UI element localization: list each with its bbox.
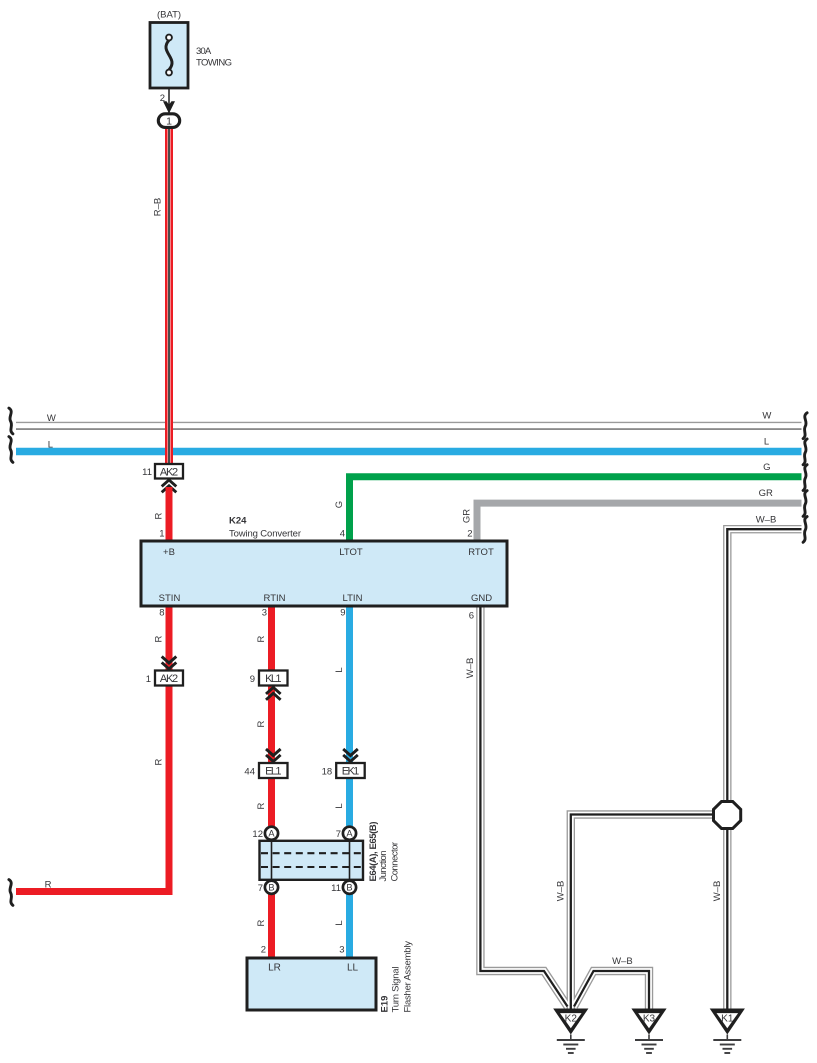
- svg-text:7: 7: [336, 829, 341, 840]
- fuse F1 30A TOWING: [150, 23, 188, 89]
- wire L from junction B to E19 pin3: [346, 895, 353, 959]
- svg-text:R: R: [154, 512, 165, 519]
- svg-text:8: 8: [159, 608, 164, 619]
- svg-text:K24: K24: [229, 516, 247, 527]
- wire L bus horizontal: [16, 448, 802, 456]
- svg-text:2: 2: [467, 528, 472, 539]
- svg-text:Flasher Assembly: Flasher Assembly: [402, 941, 413, 1013]
- wire W-B branch to K3 stripe: [574, 971, 649, 1009]
- terminal B circle pin 11: [343, 881, 356, 894]
- K24 towing converter box: [141, 541, 507, 606]
- svg-text:+B: +B: [163, 547, 175, 558]
- wire W-B branch to K3 core: [574, 971, 649, 1009]
- svg-text:LTIN: LTIN: [343, 593, 363, 604]
- svg-text:STIN: STIN: [159, 593, 181, 604]
- break squiggle left R: [9, 880, 13, 906]
- wire W-B white cores: [480, 529, 801, 1009]
- wire W-B branch to K3 edge: [574, 971, 649, 1009]
- break squiggle right GR: [803, 491, 807, 517]
- svg-text:7: 7: [258, 883, 263, 894]
- svg-text:3: 3: [339, 945, 344, 956]
- svg-text:L: L: [48, 440, 53, 451]
- chevron arrow up below AK2: [162, 480, 177, 492]
- svg-text:W–B: W–B: [556, 881, 567, 902]
- svg-text:Junction: Junction: [378, 851, 389, 882]
- connector EK1 pin 18: [336, 763, 365, 778]
- svg-text:11: 11: [142, 467, 152, 478]
- connector AK2 pin 11: [155, 464, 183, 479]
- svg-text:6: 6: [469, 611, 474, 622]
- terminal B circle pin 7: [265, 881, 278, 894]
- wire W-B bus to K1 core: [727, 529, 801, 1009]
- svg-text:TOWING: TOWING: [196, 58, 232, 69]
- break squiggle left W: [9, 408, 13, 434]
- svg-text:K3: K3: [643, 1014, 656, 1025]
- svg-text:AK2: AK2: [160, 466, 178, 478]
- svg-text:R–B: R–B: [153, 198, 164, 216]
- chevron arrow down above EL1: [266, 749, 281, 761]
- svg-text:A: A: [346, 829, 353, 839]
- junction connector E64(A) E65(B) box: [260, 841, 364, 880]
- svg-text:AK2: AK2: [160, 673, 178, 685]
- svg-text:K1: K1: [721, 1014, 734, 1025]
- svg-text:Connector: Connector: [390, 842, 401, 882]
- svg-text:Towing Converter: Towing Converter: [229, 529, 301, 540]
- svg-text:1: 1: [159, 528, 164, 539]
- svg-text:18: 18: [322, 766, 333, 777]
- svg-text:R: R: [154, 635, 165, 642]
- svg-text:EK1: EK1: [342, 766, 359, 778]
- svg-text:12: 12: [252, 829, 263, 840]
- terminal A circle pin 7: [343, 827, 356, 840]
- svg-text:3: 3: [262, 608, 267, 619]
- svg-text:R: R: [256, 919, 267, 926]
- svg-text:LTOT: LTOT: [339, 547, 363, 558]
- label E19 Turn Signal Flasher Assembly rotated: [380, 941, 414, 1013]
- ground K2: [553, 1009, 588, 1054]
- svg-text:K2: K2: [565, 1014, 578, 1025]
- wire W-B black stripes: [480, 529, 801, 1009]
- break squiggle right W-B: [803, 517, 807, 543]
- svg-text:44: 44: [244, 766, 255, 777]
- svg-text:L: L: [334, 803, 345, 808]
- arrow into connector 1: [163, 101, 175, 113]
- svg-text:GND: GND: [471, 593, 492, 604]
- wire W-B octagon branch to K2 core: [571, 815, 716, 1010]
- svg-text:B: B: [346, 883, 352, 893]
- svg-text:GR: GR: [462, 509, 473, 523]
- svg-text:B: B: [268, 883, 274, 893]
- wire fuse to connector 1: [168, 88, 170, 113]
- wire G bus with corner to LTOT: [350, 477, 802, 541]
- wire W-B GND pin6 to K2 core: [480, 606, 567, 1007]
- wire W-B GND pin6 to K2 stripe: [480, 606, 567, 1007]
- svg-text:W: W: [762, 411, 771, 422]
- svg-text:9: 9: [250, 674, 255, 685]
- wire W-B bus gray edges (K1 / GND / K2 branch / K3 branch): [480, 529, 801, 1009]
- wire GR bus with corner to RTOT: [477, 503, 802, 541]
- svg-text:R: R: [256, 720, 267, 727]
- E19 turn signal flasher assembly box: [247, 958, 376, 1010]
- wire R from RTIN pin3 through KL1 EL1 to junction A: [268, 606, 275, 826]
- wire R from STIN pin8 to left edge: [16, 606, 169, 892]
- svg-text:L: L: [334, 920, 345, 925]
- connector KL1 pin 9: [259, 671, 288, 686]
- label K24 Towing Converter: [229, 516, 301, 540]
- terminal A circle pin 12: [265, 827, 278, 840]
- svg-text:R: R: [154, 758, 165, 765]
- connector AK2 pin 1: [155, 671, 183, 686]
- svg-text:EL1: EL1: [265, 766, 281, 778]
- svg-text:KL1: KL1: [265, 673, 281, 685]
- wire R from chevron to +B pin1: [166, 487, 173, 541]
- svg-text:E19: E19: [380, 996, 391, 1013]
- svg-text:R: R: [256, 635, 267, 642]
- svg-text:RTIN: RTIN: [264, 593, 286, 604]
- svg-text:LR: LR: [268, 963, 281, 974]
- chevron arrow down above EK1: [343, 749, 358, 761]
- svg-text:W–B: W–B: [756, 515, 777, 526]
- ground K1: [710, 1009, 745, 1054]
- junction octagon on K1 wire: [714, 802, 741, 829]
- svg-text:G: G: [334, 501, 345, 508]
- svg-text:Turn Signal: Turn Signal: [390, 967, 401, 1013]
- svg-text:W: W: [47, 413, 56, 424]
- svg-text:1: 1: [146, 674, 151, 685]
- svg-text:(BAT): (BAT): [157, 10, 181, 21]
- wire W-B octagon branch to K2 stripe: [571, 815, 716, 1010]
- wire W-B bus to K1 stripe: [727, 529, 801, 1009]
- wire W-B GND pin6 to K2 edge: [480, 606, 567, 1007]
- svg-text:W–B: W–B: [465, 658, 476, 679]
- svg-text:11: 11: [331, 883, 341, 894]
- chevron arrow up below KL1: [266, 687, 281, 699]
- wire L from LTIN pin9 through EK1 to junction A: [346, 606, 353, 826]
- break squiggle right W: [803, 413, 807, 439]
- wire W-B bus to K1 edge: [727, 529, 801, 1009]
- svg-text:4: 4: [340, 528, 345, 539]
- svg-text:9: 9: [340, 608, 345, 619]
- break squiggle right L: [803, 439, 807, 465]
- svg-text:1: 1: [166, 115, 172, 127]
- connector node 1 oval: [158, 114, 179, 128]
- svg-text:LL: LL: [347, 963, 359, 974]
- svg-text:W–B: W–B: [712, 881, 723, 902]
- break squiggle left L: [9, 437, 13, 463]
- label E64(A) E65(B) junction connector rotated: [368, 822, 401, 882]
- label 30A TOWING: [196, 46, 232, 69]
- svg-text:G: G: [763, 462, 770, 473]
- svg-text:RTOT: RTOT: [468, 547, 494, 558]
- chevron arrow down above AK2 pin1: [162, 657, 177, 669]
- svg-text:L: L: [334, 667, 345, 672]
- svg-text:R: R: [256, 802, 267, 809]
- wire R from junction B to E19 pin2: [268, 895, 275, 959]
- ground K3: [631, 1009, 666, 1054]
- wire W-B octagon branch to K2 edge: [571, 815, 716, 1010]
- break squiggle right G: [803, 465, 807, 491]
- wire W bus horizontal: [16, 422, 802, 429]
- svg-text:GR: GR: [759, 488, 773, 499]
- connector EL1 pin 44: [259, 763, 288, 778]
- svg-text:2: 2: [261, 945, 266, 956]
- svg-text:W–B: W–B: [612, 956, 633, 967]
- svg-text:L: L: [764, 436, 769, 447]
- wire R-B from fuse to AK2 pin11: [165, 128, 173, 465]
- svg-text:A: A: [268, 829, 275, 839]
- svg-text:30A: 30A: [196, 46, 212, 57]
- svg-text:R: R: [45, 880, 52, 891]
